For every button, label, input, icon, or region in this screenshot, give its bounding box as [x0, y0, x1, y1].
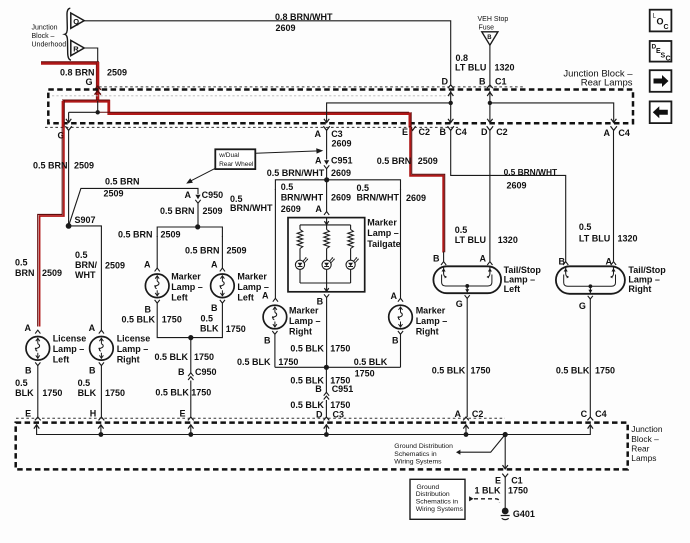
wire C950 to marker lamp branch junction	[197, 203, 199, 227]
svg-text:LT BLU: LT BLU	[455, 62, 486, 72]
svg-text:G: G	[456, 299, 463, 309]
red wire 0.5 BRN 2509 from E C2 to Tail/Stop Lamp - Left B	[410, 127, 443, 253]
wire S907 to connector C950 pin A	[69, 188, 198, 226]
svg-text:Lamp –: Lamp –	[628, 275, 660, 285]
svg-text:0.5 BRN: 0.5 BRN	[118, 230, 153, 240]
svg-text:0.5 BLK: 0.5 BLK	[122, 314, 156, 324]
svg-text:Lamp –: Lamp –	[171, 282, 203, 292]
tailgate LED 3	[350, 249, 352, 261]
svg-text:Ground Distribution: Ground Distribution	[394, 443, 453, 450]
svg-text:1750: 1750	[595, 366, 615, 376]
wire to connector C950 pin B	[190, 338, 192, 374]
svg-text:Tailgate: Tailgate	[367, 239, 400, 249]
svg-text:0.5: 0.5	[15, 378, 28, 388]
svg-text:0.5 BRN/WHT: 0.5 BRN/WHT	[504, 167, 558, 177]
svg-text:C: C	[581, 409, 588, 419]
svg-text:B: B	[392, 336, 399, 346]
wire C950 B to junction block pin E	[190, 381, 192, 418]
svg-text:0.5 BRN: 0.5 BRN	[160, 206, 195, 216]
icon arrow right	[650, 70, 672, 92]
svg-text:B: B	[433, 254, 440, 264]
svg-text:0.5 BLK: 0.5 BLK	[556, 366, 590, 376]
svg-text:S907: S907	[75, 215, 96, 225]
tailgate LED 1	[299, 249, 301, 261]
svg-text:2609: 2609	[406, 193, 426, 203]
wire to Marker Lamp - Right (right) A	[400, 189, 402, 298]
svg-text:C2: C2	[472, 409, 484, 419]
svg-text:Left: Left	[53, 355, 69, 365]
svg-text:1750: 1750	[330, 400, 350, 410]
svg-text:1320: 1320	[498, 235, 518, 245]
tailgate B wire down to ground junction	[326, 298, 328, 368]
red wire 2509 exit to E C2	[408, 113, 411, 128]
branch bus to both front marker lamps	[157, 227, 222, 237]
svg-text:Right: Right	[416, 327, 439, 337]
svg-text:C951: C951	[332, 384, 354, 394]
svg-text:Tail/Stop: Tail/Stop	[628, 265, 666, 275]
wire A C4 to Tail/Stop Lamp - Right A (0.5 LT BLU 1320)	[613, 131, 615, 262]
svg-text:0.5 BLK: 0.5 BLK	[354, 357, 388, 367]
svg-text:0.5: 0.5	[455, 225, 468, 235]
svg-text:VEH Stop: VEH Stop	[478, 16, 509, 23]
svg-text:Right: Right	[289, 327, 312, 337]
Tail/Stop Right G output	[588, 296, 593, 299]
svg-text:C: C	[666, 56, 671, 63]
svg-text:0.5: 0.5	[201, 314, 214, 324]
svg-text:Marker: Marker	[237, 272, 267, 282]
wire from A C3 down to connector C951	[326, 131, 328, 160]
svg-text:1750: 1750	[508, 485, 528, 495]
svg-text:1750: 1750	[471, 366, 491, 376]
svg-text:D: D	[442, 77, 449, 87]
wire to Marker Lamp - Left A (second)	[221, 236, 223, 268]
wire 0.8 LT BLU 1320 from fuse to junction block pin B C1	[489, 45, 491, 84]
connector chevron at D crossing	[448, 85, 454, 88]
svg-text:A: A	[89, 323, 96, 333]
wire B C4 to Tail/Stop Lamp - Right B (0.5 BRN/WHT 2609)	[451, 131, 566, 262]
wire License Right B to junction block pin H	[100, 366, 102, 417]
svg-text:BRN/: BRN/	[75, 260, 97, 270]
svg-text:Underhood: Underhood	[32, 42, 67, 49]
tailgate B output	[324, 294, 329, 297]
svg-text:BLK: BLK	[15, 388, 34, 398]
junction block bottom fine dashed line	[45, 126, 458, 128]
svg-text:H: H	[90, 408, 97, 418]
svg-text:A: A	[315, 204, 322, 214]
svg-text:1750: 1750	[355, 369, 375, 379]
svg-text:C4: C4	[595, 409, 607, 419]
icon DESC	[650, 41, 672, 62]
junction dot ground feed	[503, 432, 508, 437]
svg-text:Rear Lamps: Rear Lamps	[581, 78, 633, 89]
svg-text:B: B	[178, 367, 185, 377]
wire C951 B to junction block pin D C3	[325, 400, 327, 417]
wire 0.8 BRN/WHT 2609 from Q to junction block pin D	[84, 21, 451, 85]
svg-text:A: A	[25, 323, 32, 333]
wire Tail/Stop Left G to junction block pin A C2	[466, 298, 468, 417]
svg-text:0.5 BLK: 0.5 BLK	[155, 388, 189, 398]
icon arrow left	[650, 101, 672, 123]
svg-text:0.5 BLK: 0.5 BLK	[290, 344, 324, 354]
Marker Lamp Left B output wire	[155, 300, 160, 303]
svg-text:B: B	[487, 35, 492, 41]
svg-text:A: A	[262, 290, 269, 300]
wire ground bus to pin E C1	[504, 435, 506, 469]
connector chevrons at G crossing	[95, 86, 101, 90]
junction dot on D wire	[449, 101, 453, 105]
svg-text:E: E	[495, 476, 501, 486]
svg-text:0.5 BRN: 0.5 BRN	[377, 156, 412, 166]
svg-text:A: A	[144, 260, 151, 270]
wire branch to pin A C3	[327, 103, 451, 123]
wire 0.5 BRN 2509 from pin G to splice S907	[68, 131, 70, 226]
svg-text:C951: C951	[331, 155, 353, 165]
wire Marker Right (left) B to ground bus	[274, 334, 276, 367]
svg-text:0.5: 0.5	[357, 183, 370, 193]
svg-text:E: E	[402, 127, 408, 137]
red wire 2509 branch down-left inside box	[62, 101, 65, 128]
svg-text:0.5 BRN: 0.5 BRN	[185, 246, 220, 256]
junction block inner fine dashed line	[52, 95, 452, 97]
svg-text:0.5: 0.5	[78, 378, 91, 388]
svg-text:Schematics in: Schematics in	[416, 499, 459, 506]
triangle R (junction block underhood terminal)	[71, 40, 84, 55]
svg-text:WHT: WHT	[75, 270, 96, 280]
svg-text:B: B	[25, 366, 32, 376]
red wire 0.8 BRN 2509 horizontal feed	[41, 62, 98, 65]
svg-text:Lamp –: Lamp –	[53, 344, 85, 354]
svg-text:C2: C2	[419, 127, 431, 137]
callout arrow ground distribution (inside box)	[459, 435, 505, 453]
svg-text:C1: C1	[495, 77, 507, 87]
lamp Marker Lamp - Left (first)	[145, 274, 169, 298]
svg-text:Marker: Marker	[416, 306, 446, 316]
wire C951 to splice junction	[326, 169, 328, 180]
svg-text:2509: 2509	[107, 67, 127, 77]
tailgate LED 2	[326, 249, 328, 261]
wire branch to pin A C4	[490, 103, 614, 123]
svg-text:A: A	[455, 409, 462, 419]
tailgate resistor 1	[299, 225, 301, 230]
svg-text:1 BLK: 1 BLK	[475, 485, 502, 495]
dashed callout arrow to 1 BLK wire	[469, 496, 473, 501]
svg-text:Rear: Rear	[631, 443, 649, 453]
lamp Marker Lamp - Left (second)	[211, 274, 235, 298]
svg-text:C950: C950	[195, 367, 217, 377]
svg-text:Left: Left	[171, 293, 188, 303]
svg-text:Block –: Block –	[631, 434, 659, 444]
splice S907	[66, 223, 72, 229]
svg-text:B: B	[479, 77, 486, 87]
wire from R down to red 0.8 BRN feed	[84, 48, 98, 63]
svg-text:2609: 2609	[331, 192, 351, 202]
svg-text:1750: 1750	[226, 324, 246, 334]
svg-text:License: License	[53, 334, 87, 344]
svg-text:2509: 2509	[42, 268, 62, 278]
wire to connector C951 pin B	[325, 367, 327, 393]
svg-text:A: A	[211, 260, 218, 270]
connector chevron at B C1 crossing	[487, 85, 493, 88]
svg-text:Tail/Stop: Tail/Stop	[504, 265, 542, 275]
callout box w/Dual Rear Wheel	[215, 149, 255, 169]
svg-text:0.5: 0.5	[75, 250, 88, 260]
wire S907 to License Lamp - Right	[69, 226, 102, 332]
svg-text:0.5 BRN: 0.5 BRN	[105, 176, 140, 186]
svg-text:1750: 1750	[191, 388, 211, 398]
svg-text:B: B	[559, 257, 566, 267]
connector chevron on S907 feed wire	[65, 126, 71, 130]
callout arrow to C951	[256, 151, 319, 153]
svg-text:2509: 2509	[161, 230, 181, 240]
svg-text:0.5 BLK: 0.5 BLK	[432, 366, 466, 376]
svg-text:2609: 2609	[331, 168, 351, 178]
svg-text:1750: 1750	[330, 344, 350, 354]
wire 1 BLK 1750 to ground G401	[504, 477, 506, 509]
svg-text:2509: 2509	[104, 189, 124, 199]
lamp Marker Lamp - Right (right)	[389, 305, 413, 329]
junction dots on ground bus	[99, 432, 104, 437]
junction dot marker ground join	[188, 335, 193, 340]
svg-text:B: B	[89, 366, 96, 376]
svg-text:0.5 BRN: 0.5 BRN	[33, 161, 68, 171]
red wire 0.8 BRN 2509 down to junction block pin G	[95, 62, 97, 101]
svg-text:BRN/WHT: BRN/WHT	[281, 192, 324, 202]
svg-text:Lamp –: Lamp –	[367, 228, 399, 238]
branch bus to tailgate marker lamps	[275, 180, 400, 190]
svg-text:Lamp –: Lamp –	[416, 316, 448, 326]
junction dot center branch	[324, 177, 329, 182]
svg-text:0.8 BRN: 0.8 BRN	[60, 67, 95, 77]
svg-text:1750: 1750	[162, 314, 182, 324]
svg-text:D: D	[481, 127, 488, 137]
svg-text:2609: 2609	[507, 181, 527, 191]
svg-text:Block –: Block –	[32, 33, 55, 40]
svg-text:Right: Right	[117, 355, 140, 365]
box Marker Lamp - Tailgate	[288, 218, 365, 292]
svg-text:Ground: Ground	[417, 484, 440, 491]
svg-text:0.5: 0.5	[15, 258, 28, 268]
svg-text:0.5 BLK: 0.5 BLK	[237, 357, 271, 367]
svg-text:1750: 1750	[42, 388, 62, 398]
svg-text:Marker: Marker	[289, 306, 319, 316]
svg-text:Distribution: Distribution	[416, 491, 450, 498]
svg-text:B: B	[145, 305, 152, 315]
svg-text:Wiring Systems: Wiring Systems	[394, 458, 442, 465]
Tail/Stop Left G output	[465, 295, 470, 298]
svg-text:0.8 BRN/WHT: 0.8 BRN/WHT	[275, 12, 333, 22]
ground G401	[502, 508, 509, 515]
svg-text:0.5: 0.5	[579, 222, 592, 232]
svg-text:BRN: BRN	[15, 268, 35, 278]
svg-text:2509: 2509	[418, 156, 438, 166]
svg-text:R: R	[73, 45, 79, 54]
svg-text:Junction: Junction	[631, 424, 663, 434]
svg-text:1320: 1320	[618, 234, 638, 244]
junction block - rear lamps (bottom) heavy dashed border	[16, 423, 628, 470]
wire center branch into Marker Lamp - Tailgate	[326, 180, 328, 212]
svg-text:Q: Q	[73, 17, 79, 26]
svg-text:A: A	[315, 129, 322, 139]
wire to Marker Lamp - Left A	[156, 236, 158, 268]
junction dot center ground	[324, 365, 329, 370]
svg-text:BLK: BLK	[200, 323, 219, 333]
svg-text:Lamp –: Lamp –	[504, 275, 536, 285]
svg-text:E: E	[180, 408, 186, 418]
svg-text:2509: 2509	[105, 261, 125, 271]
svg-text:B: B	[315, 384, 322, 394]
svg-text:Lamp –: Lamp –	[117, 344, 149, 354]
wire Marker Right (right) B to ground bus	[400, 334, 402, 367]
svg-text:2509: 2509	[227, 246, 247, 256]
wire from pin B C1 inside box to pins D C2 and A C4	[489, 91, 491, 123]
svg-text:A: A	[185, 190, 192, 200]
svg-text:1750: 1750	[278, 357, 298, 367]
svg-text:Schematics in: Schematics in	[394, 451, 437, 458]
wire D C2 to Tail/Stop Lamp - Left A (0.5 LT BLU 1320)	[489, 131, 491, 262]
svg-text:LT BLU: LT BLU	[455, 235, 486, 245]
svg-text:Marker: Marker	[367, 217, 397, 227]
marker right ground bus	[275, 366, 401, 368]
svg-text:License: License	[117, 334, 151, 344]
junction dot marker branch	[195, 224, 200, 229]
wire from pin D inside box to pins B C4 and A C3	[450, 91, 452, 123]
svg-text:0.5 BLK: 0.5 BLK	[155, 352, 189, 362]
svg-text:Fuse: Fuse	[479, 25, 495, 32]
svg-text:Left: Left	[504, 284, 520, 294]
svg-text:C4: C4	[455, 127, 467, 137]
svg-text:BRN/WHT: BRN/WHT	[357, 193, 400, 203]
tailgate internal bottom bus	[300, 282, 351, 284]
lamp Marker Lamp - Right (left)	[263, 305, 287, 329]
svg-text:G: G	[86, 77, 93, 87]
wire tap to bottom pin G of junction block	[97, 101, 99, 112]
svg-text:LT BLU: LT BLU	[579, 234, 610, 244]
tailgate internal top bus	[326, 218, 328, 225]
svg-text:0.5: 0.5	[281, 182, 294, 192]
svg-text:G: G	[579, 301, 586, 311]
junction block top fine dashed line	[99, 86, 524, 88]
svg-text:1750: 1750	[105, 388, 125, 398]
svg-text:C950: C950	[202, 190, 224, 200]
svg-text:C: C	[664, 24, 669, 31]
svg-text:G401: G401	[513, 509, 535, 519]
svg-text:Rear Wheel: Rear Wheel	[219, 161, 254, 168]
svg-text:A: A	[480, 254, 487, 264]
svg-text:O: O	[657, 17, 664, 27]
svg-text:2609: 2609	[276, 23, 296, 33]
svg-text:Junction: Junction	[32, 25, 58, 32]
svg-text:Marker: Marker	[171, 272, 201, 282]
svg-text:Right: Right	[628, 284, 651, 294]
junction block - rear lamps (top) heavy dashed border	[48, 90, 633, 124]
svg-text:A: A	[315, 155, 322, 165]
svg-text:B: B	[440, 127, 447, 137]
wire Tail/Stop Right G to junction block pin C C4	[589, 299, 591, 417]
junction dot	[96, 110, 100, 114]
svg-text:E: E	[25, 408, 31, 418]
svg-text:w/Dual: w/Dual	[218, 152, 239, 159]
svg-text:BLK: BLK	[78, 388, 97, 398]
triangle Q (junction block underhood terminal)	[71, 13, 84, 28]
ground bus inside bottom junction block	[37, 425, 591, 435]
svg-text:2509: 2509	[74, 161, 94, 171]
red wire 0.5 BRN 2509 to License Lamp - Left	[40, 127, 64, 327]
wire stub to Tail/Stop Left B	[443, 252, 445, 262]
svg-text:1750: 1750	[194, 352, 214, 362]
svg-text:1320: 1320	[495, 62, 515, 72]
wire to Marker Lamp - Right (left) A	[274, 189, 276, 298]
svg-text:Lamp –: Lamp –	[289, 316, 321, 326]
svg-text:2609: 2609	[281, 204, 301, 214]
brace junction block underhood	[65, 8, 71, 60]
svg-text:A: A	[391, 291, 398, 301]
svg-text:Wiring Systems: Wiring Systems	[416, 506, 464, 513]
svg-text:2509: 2509	[203, 206, 223, 216]
svg-text:Lamps: Lamps	[631, 453, 656, 463]
svg-text:0.5 BLK: 0.5 BLK	[290, 400, 324, 410]
svg-text:BRN/WHT: BRN/WHT	[230, 203, 273, 213]
callout box Ground Distribution Schematics in Wiring Systems	[410, 479, 465, 519]
Marker Lamp Left (second) B output wire	[220, 300, 225, 303]
callout arrow to C950	[189, 168, 215, 182]
wire License Left B to junction block pin E	[37, 366, 39, 417]
red wire 2509 bus inside junction block	[98, 100, 410, 114]
icon LOC	[650, 10, 672, 32]
svg-text:0.5 BRN/WHT: 0.5 BRN/WHT	[267, 168, 325, 178]
junction dot on C1 wire	[488, 101, 492, 105]
svg-text:B: B	[264, 336, 271, 346]
svg-text:C1: C1	[511, 476, 523, 486]
tailgate resistor 2	[326, 225, 328, 230]
tailgate resistor 3	[350, 225, 352, 230]
svg-text:2609: 2609	[332, 139, 352, 149]
svg-text:B: B	[211, 303, 218, 313]
svg-text:Left: Left	[237, 293, 254, 303]
junction block - rear lamps (bottom) top fine dashed line	[16, 417, 505, 419]
svg-text:A: A	[604, 128, 611, 138]
svg-text:C4: C4	[618, 128, 630, 138]
svg-text:C2: C2	[496, 127, 508, 137]
